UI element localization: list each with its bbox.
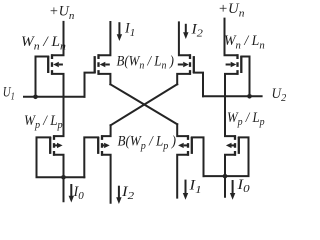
- transistor T3 (Wp/Lp left, PMOS) channel: [53, 135, 55, 156]
- transistor T7 (B(Wn/Ln) right, NMOS) gate bar: [193, 56, 195, 73]
- wire T3 gate diode loop: [37, 137, 85, 177]
- transistor T6 (Wp/Lp right, PMOS) bulk arrow: [232, 144, 235, 146]
- wire U2 rail: [203, 95, 262, 97]
- wire T3 drain down to I0 output: [54, 155, 64, 201]
- label I1 bottom-right: [188, 178, 201, 196]
- wire T1 source down to T3 (crosses U1 rail): [52, 74, 64, 136]
- transistor T4 (B(Wp/Lp) left, PMOS) channel: [101, 135, 103, 156]
- wire +Un right supply to T8 drain: [225, 19, 238, 56]
- label +Un left: [49, 4, 75, 22]
- wire T1 gate loop to U1 rail: [36, 57, 49, 97]
- label Wn/Ln left: [21, 35, 66, 53]
- transistor T6 (Wp/Lp right, PMOS) gate bar: [238, 137, 240, 154]
- wire T5 gate down to diode node: [192, 137, 204, 176]
- label I2 top: [190, 22, 203, 39]
- label U2: [272, 86, 287, 105]
- svg-text:Wn​ / Ln​: Wn​ / Ln​: [224, 34, 265, 51]
- wire T2 source to diagonal A start: [99, 74, 111, 84]
- transistor T8 (Wn/Ln right, NMOS) channel: [236, 54, 238, 74]
- node U1 junction dot: [33, 95, 38, 100]
- wire diagonal B (T7 source to T4): [111, 84, 178, 125]
- wire T7 gate to U2 rail: [194, 73, 203, 97]
- current arrow I0 bottom-left: [70, 184, 72, 197]
- wire T4 gate down to diode node: [84, 137, 98, 177]
- wire T8 gate loop to U2 rail: [241, 57, 249, 97]
- label I2 bottom-middle: [121, 184, 134, 202]
- wire T6 gate diode loop: [204, 137, 249, 176]
- transistor T7 (B(Wn/Ln) right, NMOS) bulk arrow: [178, 64, 183, 66]
- current arrow I2 top: [185, 24, 187, 34]
- node U2 junction dot: [247, 94, 252, 99]
- wire T5 drain down to I1 output: [177, 155, 188, 198]
- wire T4 drain down to I2 output: [102, 155, 111, 203]
- transistor T4 (B(Wp/Lp) left, PMOS) gate bar: [97, 137, 99, 154]
- label B(Wp/Lp): [118, 133, 177, 152]
- wire T6 drain down to I0 output: [225, 155, 235, 197]
- wire T7 source to diagonal B start: [177, 74, 190, 84]
- label B(Wn/Ln): [117, 53, 175, 72]
- transistor T2 (B(Wn/Ln) left, NMOS) gate bar: [94, 56, 96, 73]
- current arrow I1 bottom-right: [185, 180, 187, 195]
- label I0 bottom-right: [236, 177, 249, 195]
- transistor T5 (B(Wp/Lp) right, PMOS) channel: [187, 135, 189, 156]
- transistor T3 (Wp/Lp left, PMOS) gate bar: [49, 137, 51, 154]
- transistor T6 (Wp/Lp right, PMOS) channel: [234, 135, 236, 156]
- node right diode junction dot: [223, 174, 228, 179]
- transistor T1 (Wn/Ln left, NMOS) channel: [51, 54, 53, 74]
- label U1: [3, 84, 15, 103]
- current arrow I0 bottom-right: [232, 180, 234, 194]
- wire T8 source down to T6 (crosses U2 rail): [225, 74, 238, 136]
- label Wp/Lp right: [227, 109, 265, 128]
- wire U1 rail: [24, 96, 85, 98]
- wire T2 gate to U1 rail: [85, 73, 95, 97]
- label +Un right: [218, 1, 245, 19]
- node left diode junction dot: [61, 175, 66, 180]
- current arrow I1 top: [118, 22, 120, 35]
- transistor T2 (B(Wn/Ln) left, NMOS) bulk arrow: [105, 64, 110, 66]
- transistor T5 (B(Wp/Lp) right, PMOS) gate bar: [191, 137, 193, 154]
- current arrow I2 bottom-middle: [118, 186, 120, 199]
- wire I1 source to T2 drain: [99, 22, 111, 55]
- wire diagonal A (T2 source to T5): [110, 84, 177, 124]
- wire I2 source to T7 drain: [179, 22, 190, 55]
- transistor T8 (Wn/Ln right, NMOS) bulk arrow: [226, 64, 231, 66]
- transistor T4 (B(Wp/Lp) left, PMOS) bulk arrow: [103, 144, 104, 146]
- label Wp/Lp left: [24, 112, 63, 131]
- transistor T2 (B(Wn/Ln) left, NMOS) channel: [97, 54, 99, 74]
- label Wn/Ln right: [224, 34, 265, 51]
- label I1 top: [124, 21, 135, 39]
- wire diagonal B end to T4 top lead: [102, 125, 111, 136]
- transistor T5 (B(Wp/Lp) right, PMOS) bulk arrow: [184, 144, 188, 146]
- wire diagonal A end to T5 top lead: [177, 124, 188, 136]
- transistor T1 (Wn/Ln left, NMOS) bulk arrow: [59, 64, 63, 66]
- transistor T8 (Wn/Ln right, NMOS) gate bar: [240, 56, 242, 73]
- label I0 bottom-left: [72, 184, 84, 202]
- transistor T7 (B(Wn/Ln) right, NMOS) channel: [189, 54, 191, 74]
- transistor T1 (Wn/Ln left, NMOS) gate bar: [47, 56, 49, 73]
- svg-text:Wn​ / Ln​: Wn​ / Ln​: [21, 35, 66, 53]
- transistor T3 (Wp/Lp left, PMOS) bulk arrow: [55, 144, 57, 146]
- wire +Un left supply to T1 drain: [52, 22, 64, 55]
